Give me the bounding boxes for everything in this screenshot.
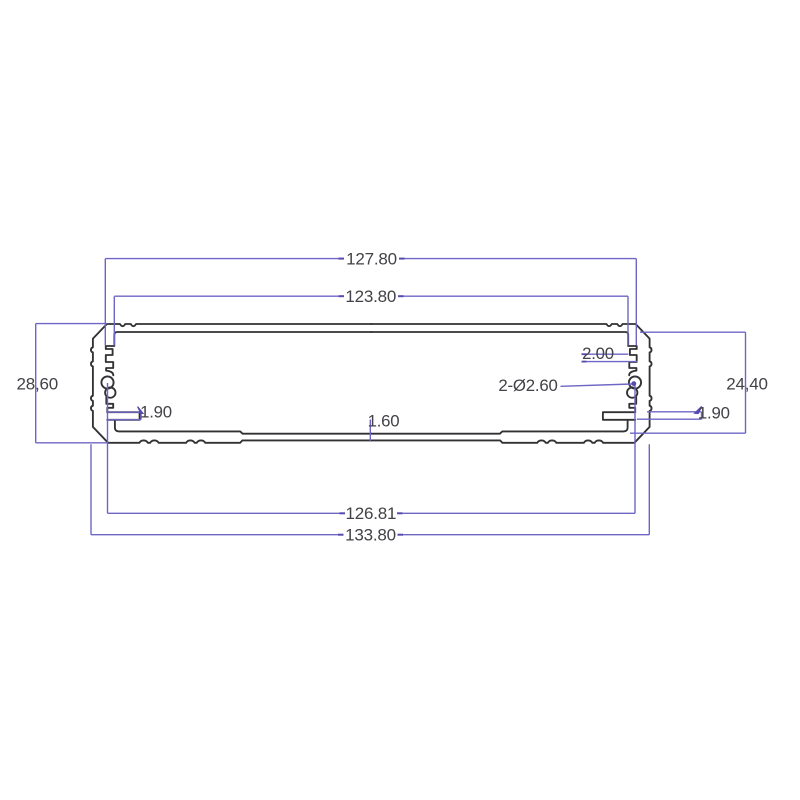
svg-text:127.80: 127.80 (346, 249, 397, 268)
svg-text:126.81: 126.81 (346, 504, 397, 523)
svg-text:24,40: 24,40 (726, 375, 768, 394)
svg-text:2-Ø2.60: 2-Ø2.60 (498, 376, 557, 395)
svg-text:28,60: 28,60 (17, 375, 59, 394)
svg-text:2.00: 2.00 (582, 344, 614, 363)
svg-text:133.80: 133.80 (345, 526, 396, 545)
svg-text:123.80: 123.80 (345, 287, 396, 306)
svg-text:1.90: 1.90 (140, 403, 172, 422)
svg-text:1.60: 1.60 (368, 411, 400, 430)
svg-text:1.90: 1.90 (698, 404, 730, 423)
